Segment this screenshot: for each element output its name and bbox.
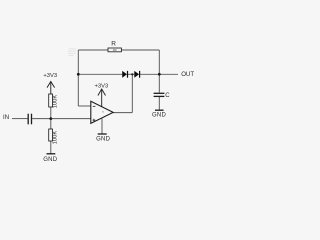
wire top left to resistor R [78, 49, 108, 51]
wire cap C to ground [158, 97, 160, 110]
svg-text:GND: GND [152, 113, 167, 119]
svg-text:IN: IN [3, 114, 9, 121]
ground at cap C [155, 109, 164, 111]
ground at divider [47, 153, 56, 155]
svg-text:100K: 100K [53, 95, 59, 109]
junction node B [49, 117, 52, 120]
resistor R feedback [108, 48, 121, 52]
wire feedback left vertical [77, 50, 79, 106]
svg-text:+3V3: +3V3 [95, 84, 109, 90]
wire IN to coupling cap [12, 118, 28, 120]
power +3V3 at divider [47, 82, 55, 95]
svg-text:+3V3: +3V3 [43, 73, 57, 79]
svg-text:R: R [111, 41, 116, 48]
wire feedback to inverting input [78, 105, 91, 107]
resistor R2 lower 100K [49, 129, 53, 141]
diode D2 [134, 71, 139, 78]
wire diode D2 to OUT [140, 73, 178, 75]
capacitor coupling input [28, 114, 31, 125]
junction OUT node [158, 73, 161, 76]
capacitor C [154, 93, 165, 96]
power +3V3 at op-amp [98, 89, 106, 107]
wire inverting node to diode D1 [78, 73, 122, 75]
ground at op-amp [98, 118, 107, 134]
op-amp U1 [91, 101, 113, 123]
wire op-amp output [113, 112, 132, 114]
resistor R1 upper 100K [49, 94, 53, 107]
diode D1 [122, 71, 127, 78]
junction inverting node [77, 73, 80, 76]
wire between diodes [128, 73, 134, 75]
svg-text:C: C [165, 93, 170, 99]
wire coupling cap to op-amp plus input [32, 118, 91, 120]
wire OUT node to cap C [158, 74, 160, 92]
junction mid-diode node [131, 73, 133, 75]
wire resistor R to top right corner [122, 49, 160, 51]
svg-text:GND: GND [96, 136, 111, 142]
wire mid-diode node down [131, 74, 133, 112]
wire lower resistor to ground [50, 141, 52, 154]
faint note text [68, 48, 77, 56]
svg-text:OUT: OUT [181, 71, 194, 78]
wire divider top resistor to node B [50, 107, 52, 129]
wire top right corner down to OUT node [158, 50, 160, 74]
svg-text:1M: 1M [113, 48, 117, 52]
svg-text:100K: 100K [53, 131, 59, 145]
svg-text:GND: GND [43, 157, 58, 163]
